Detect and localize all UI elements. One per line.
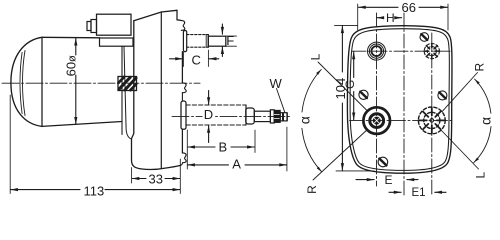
dimension D [208, 91, 210, 105]
dimension A [188, 164, 191, 166]
svg-text:D: D [204, 107, 213, 122]
label R leader bottom left [313, 131, 366, 181]
svg-text:66: 66 [402, 0, 416, 15]
dimension F extension lines [226, 35, 237, 37]
dimension 33 [131, 168, 133, 184]
svg-text:α: α [477, 117, 493, 125]
right view outline outer [347, 26, 452, 174]
centerline motor axis [2, 82, 200, 84]
svg-text:113: 113 [84, 184, 105, 199]
swing arc left [302, 70, 321, 113]
label L leader top left [318, 62, 367, 110]
swing arc right [475, 79, 491, 113]
dimension G [353, 52, 355, 78]
gearbox right edge mid [181, 93, 183, 101]
dimension 60dia [75, 38, 77, 55]
motor body top edge [42, 36, 100, 39]
gearbox right edge upper [181, 52, 183, 83]
label D [203, 108, 214, 120]
svg-text:B: B [219, 140, 228, 155]
vertical centerline left column [376, 13, 378, 186]
svg-text:E: E [385, 173, 393, 187]
dimension B [188, 146, 191, 148]
svg-text:G: G [343, 80, 357, 89]
terminal block [97, 14, 132, 35]
motor body bottom edge [42, 122, 122, 127]
dimension H [377, 17, 383, 19]
dimension E1 [389, 191, 401, 193]
output shaft threaded section [186, 104, 246, 106]
label L leader bottom right [441, 130, 479, 169]
svg-text:33: 33 [149, 171, 163, 186]
svg-text:H: H [386, 11, 395, 25]
dimension 113 [9, 95, 11, 194]
gearbox top right step [177, 10, 181, 20]
output shaft collar [246, 108, 255, 124]
svg-text:C: C [192, 53, 201, 68]
dimension F [221, 24, 223, 34]
svg-text:E1: E1 [412, 187, 426, 199]
top shaft boss plate [183, 31, 186, 52]
dimension 104 [335, 24, 358, 26]
clip feature bottom [181, 153, 186, 165]
motor dome cap [11, 37, 42, 126]
dome crimp seam [20, 53, 22, 114]
terminal connector nub inner [91, 20, 97, 33]
dome joint line [41, 37, 43, 126]
dimension C [170, 58, 183, 60]
vertical centerline housing axis [403, 13, 405, 196]
clip feature middle [182, 83, 186, 93]
dimension E [356, 179, 374, 181]
clamp flange lines [121, 46, 123, 134]
gearbox right edge lower [181, 129, 183, 153]
horizontal centerline bottom row [350, 119, 453, 121]
output shaft flange [270, 110, 274, 123]
top left boss hole [368, 42, 386, 60]
right view outline inner [350, 29, 449, 171]
svg-text:60ø: 60ø [64, 55, 79, 76]
dimension 66 [357, 4, 359, 30]
output shaft tip [280, 113, 287, 121]
svg-text:A: A [232, 157, 241, 172]
main output hole [363, 107, 390, 134]
rubber mount hatched block [118, 77, 137, 91]
gearbox bottom edge [132, 160, 181, 169]
label R leader top right [442, 73, 478, 112]
top shaft sleeve [208, 36, 226, 46]
svg-text:W: W [270, 76, 283, 91]
gearbox top edge [134, 10, 177, 20]
horizontal centerline top row [352, 50, 450, 52]
label W leader [277, 89, 285, 113]
svg-text:L: L [474, 172, 488, 179]
output shaft thin section [254, 111, 270, 121]
svg-text:L: L [308, 53, 322, 60]
left side screw [359, 90, 368, 99]
bottom screw [378, 157, 388, 167]
terminal base plate [100, 38, 134, 46]
top right dashed hole [424, 44, 439, 59]
clip feature top [181, 21, 185, 31]
tip extension line [286, 113, 288, 121]
bottom right splined hole [418, 107, 445, 134]
top screw [420, 33, 429, 42]
terminal connector nub outer [87, 22, 91, 31]
output shaft centerline [172, 115, 290, 117]
svg-text:α: α [297, 116, 313, 124]
right side screw [438, 91, 447, 100]
gearbox crease line [160, 12, 162, 168]
gearbox left wall [132, 21, 134, 160]
output shaft knurl [274, 110, 280, 122]
svg-text:R: R [473, 63, 487, 72]
top shaft threaded tube [187, 34, 209, 36]
svg-text:R: R [305, 185, 319, 194]
vertical centerline right column [431, 33, 433, 195]
output shaft boss plate [181, 101, 186, 129]
svg-text:F: F [226, 33, 234, 48]
